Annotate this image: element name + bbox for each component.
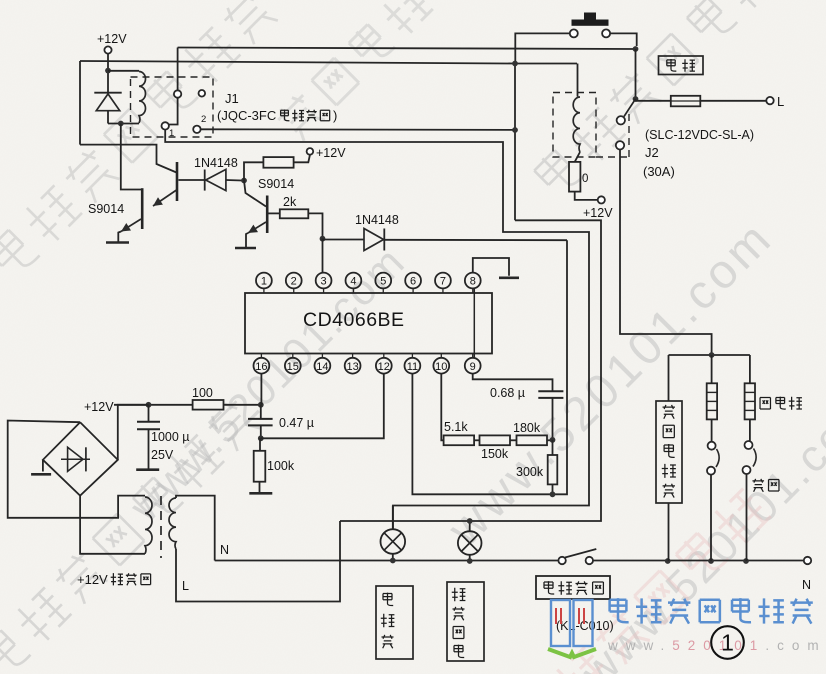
resistor 5.1k xyxy=(444,435,475,445)
power switch contact right xyxy=(586,557,593,564)
wire 100k to ground xyxy=(259,482,261,493)
node lamp2 bus xyxy=(467,558,473,564)
svg-text:25V: 25V xyxy=(151,448,174,462)
wire 100 to pin16 node xyxy=(224,404,261,406)
node 300k bottom xyxy=(550,491,556,497)
svg-text:12: 12 xyxy=(378,361,390,373)
vertical bus x=515 xyxy=(514,64,516,221)
wire 2k to node xyxy=(308,213,322,238)
wire pin9 to 0.68u xyxy=(473,373,553,390)
wire contact1 to bus net A xyxy=(165,130,589,530)
wire node to fuse xyxy=(636,100,671,102)
transistor Q1 S9014 bar xyxy=(141,188,144,229)
pin 11 of U1 xyxy=(411,354,413,359)
node Q3 base/R divider xyxy=(241,178,247,184)
node pin16/0.47u xyxy=(258,402,264,408)
ground Q3 xyxy=(235,247,256,250)
svg-text:13: 13 xyxy=(346,361,358,373)
pin 3 of U1 xyxy=(323,288,325,293)
pin 6 of U1 xyxy=(412,288,414,293)
svg-text:5: 5 xyxy=(380,276,386,288)
node coil bottom to Q1 base xyxy=(118,121,124,127)
svg-text:150k: 150k xyxy=(481,447,509,461)
pin 12 of U1 xyxy=(383,354,385,359)
watermark hanzi bottom-left diagonal xyxy=(0,396,262,679)
wire primary bottom L lead xyxy=(176,521,340,602)
svg-text:(30A): (30A) xyxy=(643,164,675,179)
indicator box working xyxy=(447,582,484,661)
svg-text:100k: 100k xyxy=(267,459,295,473)
svg-text:4: 4 xyxy=(350,276,356,288)
pin 5 of U1 xyxy=(382,288,384,293)
logo circled 1 xyxy=(711,626,744,659)
svg-text:1000 µ: 1000 µ xyxy=(151,430,189,444)
resistor 300k xyxy=(552,440,554,455)
wire button right to node xyxy=(610,33,637,46)
svg-text:S9014: S9014 xyxy=(258,177,294,191)
wire 300k bottom xyxy=(552,484,554,494)
relay J1 dashed box xyxy=(131,77,214,137)
pin 1 of U1 xyxy=(263,288,265,293)
svg-text:0: 0 xyxy=(582,173,588,185)
pin 2 of U1 xyxy=(293,288,295,293)
watermark www.520101.com bottom-right diagonal xyxy=(570,380,826,679)
svg-text:0.68 µ: 0.68 µ xyxy=(490,386,525,400)
svg-text:2: 2 xyxy=(291,276,297,288)
svg-text:J2: J2 xyxy=(645,145,659,160)
capacitor 1000u 25V xyxy=(148,405,150,422)
node lamp1 bus xyxy=(390,558,396,564)
svg-text:+12V: +12V xyxy=(97,32,127,46)
svg-text:3: 3 xyxy=(321,276,327,288)
resistor 2k xyxy=(280,209,309,218)
watermark www.520101.com center-left diagonal xyxy=(120,237,414,531)
svg-text:6: 6 xyxy=(410,276,416,288)
diode D2 1N4148 xyxy=(204,170,206,191)
svg-text:+12V: +12V xyxy=(316,146,346,160)
svg-text:180k: 180k xyxy=(513,421,541,435)
ground pin8 xyxy=(499,276,519,279)
transistor Q3 emitter arrow xyxy=(248,222,266,233)
resistor 0 J2 coil xyxy=(575,152,580,162)
svg-text:15: 15 xyxy=(287,361,299,373)
fuse F1 xyxy=(671,96,701,107)
wire contact top-1 up to bus xyxy=(177,48,179,91)
svg-text:(JQC-3FC: (JQC-3FC xyxy=(217,108,276,123)
wire bridge top loop to secondary xyxy=(8,421,145,518)
push button contact left xyxy=(570,29,578,37)
relay J2 coil xyxy=(573,97,580,152)
svg-text:1N4148: 1N4148 xyxy=(355,213,399,227)
power switch lever xyxy=(565,549,596,558)
wire bus corner to J2 coil xyxy=(577,64,579,97)
relay J2 switch lever xyxy=(624,99,636,117)
relay J1 contact 2 xyxy=(193,126,200,133)
svg-text:1: 1 xyxy=(261,276,267,288)
wire resistor0 to +12V terminal xyxy=(575,192,598,200)
terminal L xyxy=(766,97,773,104)
wire fuse to L terminal xyxy=(700,100,766,102)
terminal +12V bias xyxy=(307,148,314,155)
pin 16 of U1 xyxy=(260,354,262,359)
wire primary top to N bus xyxy=(176,496,215,561)
node heater1 bus xyxy=(708,558,714,564)
wire bottom box edge to Q2 collector xyxy=(80,145,177,173)
svg-text:16: 16 xyxy=(255,361,267,373)
svg-text:8: 8 xyxy=(470,276,476,288)
node fuse junction xyxy=(633,96,639,102)
relay J1 contact 1 xyxy=(162,122,169,129)
resistor R bias to +12V xyxy=(263,157,293,168)
bridge inner diode xyxy=(61,458,90,460)
wire net B 515 to 601 down to lamp2 line xyxy=(340,220,601,521)
ground 1000u xyxy=(136,468,159,471)
svg-text:1: 1 xyxy=(721,630,734,656)
wire 0.47u bottom to pin12 xyxy=(261,373,384,438)
svg-text:2k: 2k xyxy=(283,195,297,209)
relay J2 moving contact xyxy=(617,116,625,124)
transistor Q1 emitter arrow xyxy=(121,219,141,232)
bridge rectifier diamond xyxy=(43,422,118,495)
svg-text:L: L xyxy=(182,579,189,593)
heater element 1 xyxy=(711,355,713,383)
watermark hanzi top-left diagonal xyxy=(0,0,280,281)
watermark hanzi pink bottom-right xyxy=(550,486,773,679)
svg-text:www.520101.com: www.520101.com xyxy=(607,638,826,653)
transformer primary winding xyxy=(169,498,176,549)
diode D3 1N4148 xyxy=(364,229,384,251)
pin 9 of U1 xyxy=(472,354,474,359)
svg-text:CD4066BE: CD4066BE xyxy=(303,309,405,331)
svg-text:2: 2 xyxy=(201,114,206,125)
pin 15 of U1 xyxy=(292,354,294,359)
svg-text:J1: J1 xyxy=(225,91,239,106)
relay J1 contact top 1 xyxy=(174,90,181,97)
node button right xyxy=(633,46,639,52)
wire Q3 collector to 2k xyxy=(269,212,280,214)
wire button node down xyxy=(635,49,637,99)
logo site name hanzi xyxy=(610,598,629,622)
wire pin3 stem xyxy=(322,239,324,273)
svg-text:N: N xyxy=(220,543,229,557)
relay J2 dashed box xyxy=(553,93,596,158)
wire long top bus to push button node xyxy=(178,48,636,50)
node heater2 bus xyxy=(743,558,749,564)
svg-text:10: 10 xyxy=(435,361,447,373)
wire +12V stem xyxy=(107,54,109,93)
lamp HL2 working xyxy=(458,531,482,555)
wire Q3 emitter ground stem xyxy=(246,233,248,247)
node 0.47u bottom xyxy=(258,435,264,441)
wire node to D3 xyxy=(323,239,365,241)
svg-text:11: 11 xyxy=(407,361,418,373)
wire contact2 to node xyxy=(201,128,515,131)
wire pin16 stem xyxy=(260,373,262,404)
pin 10 of U1 xyxy=(440,354,442,359)
wire ozone stem top xyxy=(668,355,670,401)
svg-text:+12V: +12V xyxy=(84,400,114,414)
relay J2 fixed contact xyxy=(616,141,624,149)
bottom N bus right segment xyxy=(593,560,804,562)
transistor Q3 S9014 bar xyxy=(266,196,269,234)
heater top bus xyxy=(669,354,750,356)
diode D1 flyback across J1 coil xyxy=(94,92,121,94)
node heater bus xyxy=(709,352,715,358)
wire bridge bottom to secondary xyxy=(80,496,145,554)
ozone generator box xyxy=(656,401,682,503)
wire D3 cathode to right bus xyxy=(384,239,567,241)
capacitor 0.47u xyxy=(260,405,262,419)
terminal +12V J2 xyxy=(598,196,605,203)
pin 13 of U1 xyxy=(352,354,354,359)
node +12V/coil junction xyxy=(105,68,111,74)
power switch label box xyxy=(536,576,610,599)
bottom N bus left segment xyxy=(215,560,559,562)
wire bridge + output to rail xyxy=(118,405,149,460)
wire pin10 to 5.1k xyxy=(441,373,443,440)
svg-text:1N4148: 1N4148 xyxy=(194,156,238,170)
IC inner pin8-9 line xyxy=(473,288,475,358)
pin 7 of U1 xyxy=(442,288,444,293)
svg-text:+12V: +12V xyxy=(77,572,108,587)
ground 100k xyxy=(249,492,272,495)
wire Q1 emitter to ground xyxy=(118,232,121,242)
wire net D3/pin11/300k vertical xyxy=(412,240,567,494)
node 180k/0.68u/300k xyxy=(550,437,556,443)
wire Q3 base xyxy=(244,181,266,207)
svg-text:N: N xyxy=(802,578,811,592)
ground Q1 xyxy=(106,241,129,244)
watermark www.520101.com right-edge diagonal xyxy=(438,211,784,557)
power switch contact left xyxy=(558,557,565,564)
node bus 515 contact2 xyxy=(512,127,518,133)
resistor 100 xyxy=(193,400,224,410)
capacitor 0.68u xyxy=(538,390,563,392)
transistor Q2 emitter arrow to Q1 xyxy=(153,190,177,206)
label thermostat xyxy=(752,479,764,492)
svg-text:0.47 µ: 0.47 µ xyxy=(279,416,314,430)
resistor 100k xyxy=(259,438,261,451)
push button start xyxy=(584,13,596,21)
relay J1 coil xyxy=(108,70,139,72)
ground bridge xyxy=(42,460,44,472)
watermark hanzi top-right diagonal xyxy=(532,0,816,200)
svg-text:9: 9 xyxy=(470,361,476,373)
svg-text:5.1k: 5.1k xyxy=(444,420,468,434)
terminal N xyxy=(804,557,811,564)
start label box xyxy=(659,56,704,75)
svg-text:): ) xyxy=(333,108,337,123)
relay J1 contact top 2 xyxy=(199,90,206,97)
svg-text:1: 1 xyxy=(169,128,174,139)
IC CD4066BE box xyxy=(245,293,492,354)
wire J2 contact to heater bus xyxy=(620,150,712,355)
svg-text:300k: 300k xyxy=(516,465,544,479)
terminal +12V top-left xyxy=(104,46,111,53)
node ozone bus xyxy=(665,558,671,564)
pin 8 of U1 xyxy=(472,288,474,293)
svg-text:7: 7 xyxy=(440,276,446,288)
thermostat switch 1 xyxy=(711,419,713,441)
svg-text:L: L xyxy=(777,94,784,109)
svg-text:14: 14 xyxy=(316,361,328,373)
logo book icon xyxy=(551,600,593,646)
resistor 150k xyxy=(474,439,479,441)
wire button left to bus node xyxy=(515,33,570,61)
transformer secondary winding xyxy=(145,497,152,554)
push button contact right xyxy=(602,29,610,37)
node D3 anode xyxy=(320,236,326,242)
lamp HL1 disinfected xyxy=(381,529,406,554)
wire left box edge xyxy=(79,61,81,145)
wire +12V rail to 100 resistor xyxy=(114,404,193,406)
wire resistor to +12V terminal xyxy=(294,155,310,162)
pin 4 of U1 xyxy=(352,288,354,293)
svg-text:100: 100 xyxy=(192,386,213,400)
node bus 515 top xyxy=(512,61,518,67)
wire ozone to bus xyxy=(668,503,670,561)
pin 14 of U1 xyxy=(321,354,323,359)
wire top bus edge xyxy=(80,61,577,64)
wire pin8 to ground hook xyxy=(473,258,509,276)
watermark hanzi mid diagonal xyxy=(273,0,434,143)
transformer core dashes xyxy=(160,496,162,558)
node lamp2 top xyxy=(467,518,473,524)
svg-text:S9014: S9014 xyxy=(88,202,124,216)
label heater tube xyxy=(760,397,770,409)
thermostat switch 2 xyxy=(749,419,751,441)
wire Q1 base from coil xyxy=(121,124,141,190)
wire node up to resistor xyxy=(244,162,263,180)
transistor Q2 S9014 bar xyxy=(176,162,179,201)
indicator box disinfected xyxy=(376,586,413,659)
heater element 2 xyxy=(749,355,751,383)
svg-text:(SLC-12VDC-SL-A): (SLC-12VDC-SL-A) xyxy=(645,128,754,142)
resistor 180k xyxy=(510,439,517,441)
node 1000u top xyxy=(146,402,152,408)
wire coil bottom link xyxy=(108,123,139,125)
wire Q2 base to D2 xyxy=(179,179,205,181)
wire contact link xyxy=(169,98,178,125)
svg-text:+12V: +12V xyxy=(583,206,613,220)
